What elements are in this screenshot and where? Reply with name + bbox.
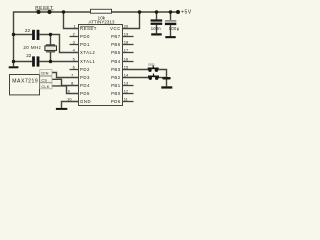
ground under buttons [161,86,172,88]
wire DIN flag to pin 7 [52,73,79,78]
pin stub PD1 3 [70,44,79,46]
svg-text:20 MHz: 20 MHz [23,45,41,50]
wire PB2 pin 14 to button S2 [123,77,151,79]
wire GND rail left [14,12,91,66]
node reset row pin1 branch [62,10,65,13]
pin numbers right 20..11 [124,23,129,101]
capacitor C4 100u plates [165,20,176,22]
wire crystal top [50,35,52,45]
wire +5V row [112,11,179,13]
node +5V vcc branch [138,10,142,14]
wire 100n top lead [156,12,158,19]
svg-text:PB4: PB4 [111,59,121,64]
svg-text:PD4: PD4 [80,83,90,88]
pin labels left [80,26,97,104]
wire GND pin 10 to ground [62,102,79,108]
svg-text:GND: GND [80,99,91,104]
svg-text:MAX7219: MAX7219 [12,78,38,84]
svg-text:8: 8 [71,80,73,85]
wire top cap to XTAL2 pin 4 [39,35,78,53]
wire bottom cap to XTAL1 pin 5 [39,61,78,63]
svg-text:PD0: PD0 [80,34,90,39]
node reset row a [37,10,41,14]
wire rail to bottom 22p cap [14,61,33,63]
ground under C3 [151,33,162,35]
wire rail to top 22p cap [14,34,33,36]
svg-text:2: 2 [73,31,75,36]
svg-text:PB7: PB7 [111,34,121,39]
svg-text:XTAL1: XTAL1 [80,59,95,64]
wire PB3 pin 15 to button S1 [123,69,150,71]
node crystal bottom [49,60,52,63]
svg-text:19: 19 [124,31,128,36]
wire 100u top lead [170,12,172,20]
wire 100u bottom lead [170,25,172,36]
pin stub PD2 6 [70,69,79,71]
wire CLK flag to pin 9 [52,86,79,94]
pin labels right [110,26,121,104]
svg-text:PB3: PB3 [111,67,121,72]
svg-text:11: 11 [124,96,128,101]
node crystal top [49,33,52,36]
wire button S1 to ground drop [157,70,167,87]
svg-text:CLK: CLK [41,84,49,89]
svg-text:22: 22 [26,53,32,58]
port flag DIN [40,70,52,76]
svg-text:15: 15 [124,64,128,69]
port flag CLK [40,83,52,89]
node rail bottom cap [12,60,15,63]
module MAX7219 body [10,75,40,95]
svg-text:3: 3 [73,39,75,44]
wire RESET to pin 1 [64,12,79,29]
svg-text:RESET: RESET [80,26,97,31]
svg-text:PD6: PD6 [111,99,121,104]
svg-text:17: 17 [124,47,128,52]
svg-text:18: 18 [124,39,128,44]
svg-text:100µ: 100µ [169,26,180,31]
svg-text:PD2: PD2 [80,67,90,72]
resistor R1 body [91,9,112,13]
underline of RESET label [35,9,54,11]
svg-text:S201: S201 [148,62,155,66]
svg-text:DIN: DIN [41,71,48,76]
wire CS flag to pin 8 [52,79,79,85]
wire VCC pin 20 to +5V row [123,12,140,29]
wire 100n bottom lead [156,25,158,33]
svg-text:VCC: VCC [110,26,121,31]
node buttons ground [162,77,170,80]
svg-text:5: 5 [73,56,75,61]
svg-text:ATTINY2313: ATTINY2313 [89,20,116,25]
ground under left rail [9,66,19,68]
node reset row b [48,10,52,14]
svg-text:PD5: PD5 [80,91,90,96]
pin stub PD0 2 [70,36,79,38]
svg-text:22: 22 [25,28,31,33]
svg-text:6: 6 [73,64,75,69]
wire button S2 to ground drop [157,77,167,79]
svg-text:PB5: PB5 [111,50,121,55]
svg-text:13: 13 [124,80,128,85]
svg-text:XTAL2: XTAL2 [80,50,95,55]
node +5V 100n branch [155,10,159,14]
junction dots [12,10,180,80]
capacitor C2 22p bottom plates [32,56,39,66]
capacitor C1 22p top plates [32,30,39,40]
svg-text:10k: 10k [98,15,106,20]
node rail top cap [12,33,15,36]
wire crystal bottom [50,52,52,62]
pushbutton S1 [148,66,159,72]
svg-text:7: 7 [71,72,73,77]
svg-text:PD1: PD1 [80,42,90,47]
port flag CS [40,76,52,82]
svg-text:RESET: RESET [35,5,53,10]
svg-text:12: 12 [124,88,128,93]
pin numbers left 1..10 [67,23,76,101]
pin stubs right side 19..11 [123,37,134,102]
capacitor C3 100n plates [151,19,163,25]
svg-text:PB1: PB1 [111,83,121,88]
svg-text:100n: 100n [151,26,161,31]
terminal +5V [176,10,180,14]
svg-text:+5V: +5V [181,10,192,16]
crystal Q1 [45,44,57,52]
ground under pin 10 [56,108,67,110]
IC U1 ATTINY2313 body [79,25,123,106]
ground under C4 [165,36,175,38]
svg-text:PD3: PD3 [80,75,90,80]
svg-text:16: 16 [124,56,128,61]
svg-text:CS: CS [41,77,47,82]
svg-text:9: 9 [68,88,70,93]
svg-text:PB2: PB2 [111,75,121,80]
pushbutton S2 [148,74,159,80]
svg-text:PB6: PB6 [111,42,121,47]
svg-text:1: 1 [74,23,76,28]
node +5V 100u branch [169,10,173,14]
svg-text:PB0: PB0 [111,91,121,96]
